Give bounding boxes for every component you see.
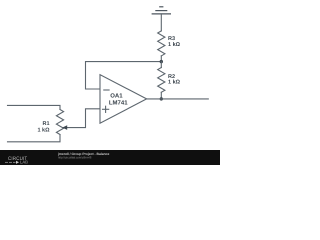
svg-text:http://circuitlab.com/c6hm48: http://circuitlab.com/c6hm48 [58, 155, 92, 159]
wire [160, 62, 162, 68]
node B [160, 97, 163, 100]
svg-text:1 kΩ: 1 kΩ [37, 127, 50, 133]
wire [67, 109, 100, 128]
wire [86, 62, 162, 89]
wire [160, 92, 162, 99]
potentiometer R1 [56, 110, 63, 135]
wire [160, 56, 162, 62]
svg-text:1 kΩ: 1 kΩ [168, 80, 181, 86]
footer text [57, 152, 109, 159]
svg-text:R3: R3 [168, 36, 175, 42]
resistor R3 [158, 31, 165, 56]
footer bar [0, 150, 220, 165]
svg-text:LM741: LM741 [109, 99, 128, 106]
svg-text:R1: R1 [42, 121, 49, 127]
svg-text:1 kΩ: 1 kΩ [168, 42, 181, 48]
wire [160, 14, 162, 31]
ground [152, 7, 170, 14]
node A [160, 60, 163, 63]
op-amp OA1 [100, 75, 147, 124]
svg-text:OA1: OA1 [110, 93, 123, 100]
wire [147, 98, 209, 100]
CircuitLab logo [5, 156, 28, 165]
resistor R2 [158, 68, 165, 93]
wire [8, 135, 61, 142]
wire [8, 105, 61, 109]
svg-text:LAB: LAB [20, 160, 28, 165]
